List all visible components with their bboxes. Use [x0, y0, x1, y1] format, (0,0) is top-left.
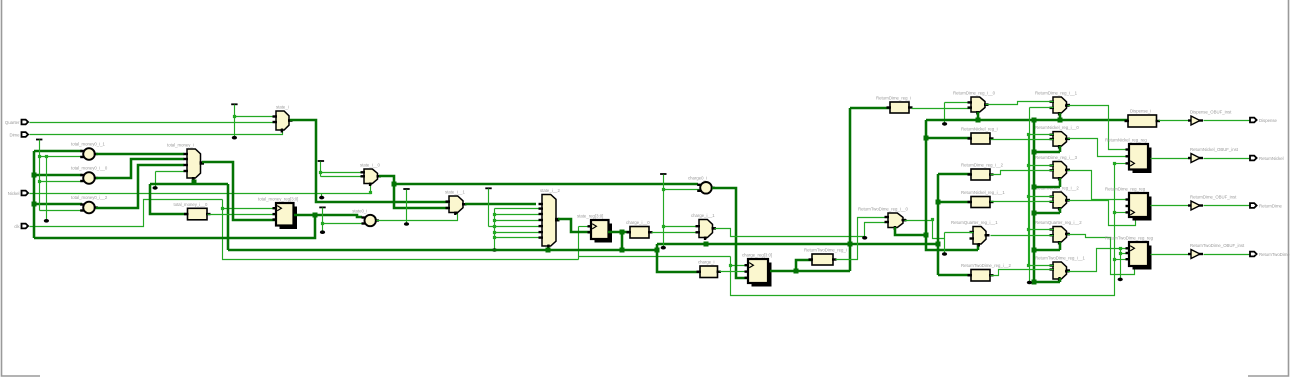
wire select branch — [1034, 212, 1060, 215]
wire mux out — [905, 220, 933, 222]
wire mux2 out to reg — [1068, 139, 1130, 157]
wire branch to mux in1 — [945, 102, 972, 104]
mux state_i — [276, 105, 293, 133]
junction stub tap — [662, 188, 665, 191]
svg-text:state_i__1: state_i__1 — [445, 190, 465, 195]
constant stub x406.5 — [403, 188, 409, 190]
mux ReturnNickel_reg_i__0 — [1035, 125, 1079, 149]
constant stub x663.3 — [660, 173, 666, 175]
wire charge_i out to charge_reg — [720, 271, 749, 273]
wire branch to ReturnDime_reg_i__2 — [938, 173, 971, 176]
LUT charge_i__0 — [626, 220, 653, 238]
junction trunk x1033 — [1032, 118, 1037, 123]
wire Nickel net to state_i__0 select — [30, 184, 371, 194]
wire reg out — [1151, 158, 1192, 160]
LUT state0_i — [352, 208, 379, 226]
svg-text:total_money_i__0: total_money_i__0 — [174, 202, 209, 207]
wire const to state_i__2 in5 — [489, 226, 539, 228]
mux ReturnQuarter_reg_i__2 — [1035, 220, 1082, 245]
wire tap to in4 — [495, 220, 539, 222]
svg-text:charge0_i: charge0_i — [688, 176, 707, 181]
wire total_money0_i__0 out — [96, 159, 184, 178]
LUT Dispense_i — [1125, 109, 1161, 128]
constant stub left — [36, 139, 42, 141]
svg-text:ReturnNickel: ReturnNickel — [1259, 156, 1284, 161]
wire bus to total_money0_i__2 input — [34, 203, 82, 206]
wire bus B y244 — [657, 243, 938, 246]
svg-text:charge_i: charge_i — [698, 260, 715, 265]
svg-text:ReturnNickel_reg_i__0: ReturnNickel_reg_i__0 — [1035, 125, 1079, 130]
svg-text:ReturnDime_reg_reg: ReturnDime_reg_reg — [1105, 187, 1146, 192]
svg-text:ReturnDime_reg_i__0: ReturnDime_reg_i__0 — [953, 91, 996, 96]
wire tap to in2 — [495, 208, 539, 210]
svg-text:ReturnDime_reg_i: ReturnDime_reg_i — [876, 96, 911, 101]
output port ReturnDime — [1250, 203, 1283, 208]
wire total bus vertical x34 — [33, 151, 36, 238]
svg-text:Quarter: Quarter — [5, 120, 20, 125]
wire trunk x926 down — [926, 120, 978, 250]
junction stub tap — [662, 225, 665, 228]
mux ReturnDime_reg_i__3 — [1035, 155, 1078, 181]
wire total_money_reg Q to state0_i — [315, 215, 362, 217]
junction state_reg Q — [620, 230, 625, 235]
junction stub tap — [319, 171, 322, 174]
svg-text:ReturnQuarter_reg_i__1: ReturnQuarter_reg_i__1 — [951, 220, 998, 225]
wire ReturnDime_reg_i__0 out to __1 — [986, 102, 1054, 105]
pins state_i__0 — [361, 171, 366, 173]
wire tap to in6 — [495, 232, 539, 234]
junction start of bus y183.6 — [392, 182, 397, 187]
wire net with end dot — [944, 233, 946, 253]
register ReturnTwoDime_reg_reg — [1105, 236, 1154, 270]
wire state_i__2 out to state_reg D — [558, 219, 591, 232]
input port Dime — [9, 132, 28, 137]
junction clk tap — [221, 207, 224, 210]
wire const stub to state0_i in2 — [323, 223, 362, 225]
LUT charge_i — [697, 260, 722, 278]
wire mux1 select to bus — [1059, 113, 1062, 120]
junction taps — [493, 213, 496, 216]
svg-text:charge_i__0: charge_i__0 — [626, 220, 650, 225]
wire state_i out to state_i__1 — [290, 120, 448, 202]
mux ReturnTwoDime_reg_i__1 — [1035, 256, 1086, 282]
mux state_i__1 — [445, 190, 467, 216]
svg-text:ReturnTwoDime_reg_i__0: ReturnTwoDime_reg_i__0 — [858, 207, 909, 212]
input port Nickel — [8, 191, 28, 196]
wire charge0_i out to charge_reg D — [712, 188, 748, 278]
pins ReturnTwoDime_reg_i__0 — [885, 216, 890, 218]
svg-text:state0_i: state0_i — [352, 208, 367, 213]
svg-text:ReturnNickel_reg_reg: ReturnNickel_reg_reg — [1105, 138, 1147, 143]
LUT total_money0_i__2 — [71, 195, 108, 213]
wire total_money_i__0 out to reg D — [208, 214, 277, 216]
wire ReturnNickel_reg_i__1 out — [991, 201, 1054, 203]
LUT total_money0_i_1 — [71, 142, 106, 160]
wire Dispense_i out — [1159, 120, 1192, 122]
pins total_money_i inputs — [184, 153, 189, 155]
wire clk net from port — [30, 200, 223, 227]
wire into reg3 — [1121, 253, 1130, 255]
svg-text:ReturnDime_OBUF_inst: ReturnDime_OBUF_inst — [1190, 195, 1237, 200]
LUT ReturnDime_reg_i__2 — [961, 163, 1004, 181]
svg-text:state_i__0: state_i__0 — [360, 163, 380, 168]
wire reg out — [1151, 205, 1192, 207]
junction stub tap — [233, 115, 236, 118]
register charge_reg[3:0] — [742, 253, 772, 287]
wire state_reg Q to bus — [621, 232, 624, 250]
wire charge_i__0 out to charge_i__1 — [652, 232, 700, 234]
wire state bus to total_money_i__0 — [150, 184, 188, 214]
wire total bus feedback y237 — [34, 215, 315, 238]
mux state_i__2 — [540, 188, 560, 249]
svg-text:total_money_i: total_money_i — [167, 143, 194, 148]
wire reg out — [1151, 254, 1192, 256]
junction stub tap — [38, 155, 41, 158]
junction bus — [32, 202, 37, 207]
wire const to state_i__0 in2 — [321, 176, 361, 178]
svg-text:state_i: state_i — [276, 105, 289, 110]
svg-text:total_money_reg[3:0]: total_money_reg[3:0] — [258, 197, 298, 202]
pins state_i__2 — [539, 203, 544, 205]
constant stub for state_i — [231, 103, 237, 105]
wire branch to ReturnNickel_reg_i — [926, 137, 971, 140]
wire ReturnDime_reg_i out — [912, 108, 972, 110]
register ReturnDime_reg_reg — [1105, 187, 1152, 221]
mux ReturnQuarter_reg_i__1 — [951, 220, 998, 247]
svg-text:ReturnTwoDime: ReturnTwoDime — [1259, 252, 1290, 257]
svg-text:state_i__2: state_i__2 — [540, 188, 560, 193]
wire to total_money0_i__0 lower input — [40, 181, 83, 183]
wire mux5 out under reg3 — [1068, 235, 1135, 275]
mux charge_i__1 — [691, 213, 716, 240]
junction — [931, 218, 934, 221]
wire const to charge_i__1 in1 — [664, 226, 696, 228]
svg-text:state_reg[3:0]: state_reg[3:0] — [577, 214, 603, 219]
wire ReturnTwoDime_reg_i out to mux in1 — [836, 218, 889, 260]
wire stub down — [155, 172, 157, 187]
junction — [1119, 252, 1122, 255]
LUT charge0_i — [688, 176, 715, 194]
output port ReturnNickel — [1250, 156, 1284, 161]
wire charge_i__1 out to ReturnTwoDime mux — [715, 223, 889, 237]
wire const to charge0_i in2 — [664, 189, 700, 191]
wire to total_money0_i__2 lower input — [40, 210, 83, 212]
wire tap to in3 — [495, 214, 539, 216]
svg-text:Dispense_i: Dispense_i — [1130, 109, 1151, 114]
wire tap to in7 — [495, 237, 539, 239]
svg-text:total_money0_i_1: total_money0_i_1 — [71, 142, 106, 147]
wire clk branch to state_reg — [578, 227, 580, 260]
wire total_money_i out to total_money_reg — [202, 162, 276, 220]
register state_reg[3:0] — [577, 214, 612, 243]
wire dispense bus y120 — [926, 119, 1128, 122]
wire Dime net to state_i select — [30, 131, 283, 135]
wire stub — [944, 103, 946, 123]
wire select branch — [1034, 281, 1060, 284]
svg-text:ReturnNickel_reg_i__1: ReturnNickel_reg_i__1 — [961, 190, 1005, 195]
wire Nickel branch end — [321, 194, 323, 197]
wire clk run middle — [579, 256, 731, 258]
svg-text:total_money0_i__0: total_money0_i__0 — [71, 166, 108, 171]
input port Quarter — [5, 120, 28, 125]
wire clk into state_reg — [579, 226, 592, 228]
junction total_money_i select — [192, 180, 197, 185]
register ReturnNickel_reg_reg — [1105, 138, 1152, 174]
wire bus to total_money0_i__0 input — [34, 174, 82, 177]
wire ReturnTwoDime_reg_i__2 out — [991, 270, 1054, 276]
wire clk into charge_reg — [731, 265, 749, 267]
pins ReturnQuarter_reg_i__1 — [970, 231, 975, 233]
wire up to ReturnQuarter mux select — [977, 244, 980, 250]
junction stub tap — [321, 222, 324, 225]
mux total_money_i — [167, 143, 204, 181]
wire in1 column x1028 — [1028, 135, 1030, 266]
wire select branch — [1034, 151, 1060, 154]
wire total_money0_i__2 out — [96, 165, 184, 208]
wire charge bus to ReturnTwoDime_reg_i — [796, 260, 812, 271]
wire in1 tap — [1029, 265, 1054, 267]
wire state bus taps vertical — [494, 209, 496, 250]
wire clk into total_money_reg — [223, 208, 277, 210]
junction — [924, 233, 929, 238]
wire state bus select line — [150, 183, 228, 186]
wire — [1120, 249, 1122, 279]
svg-text:ReturnNickel_reg_i: ReturnNickel_reg_i — [961, 127, 998, 132]
junction charge_i__1 select — [704, 242, 709, 247]
wire bus to total_money0_i_1 input — [34, 150, 82, 153]
wire down to ReturnQuarter mux — [933, 221, 945, 239]
wire state_i__1 out to state_i__2 — [465, 203, 536, 206]
wire branch to ReturnTwoDime_reg_i__2 — [938, 274, 971, 277]
pins state_i__1 — [446, 200, 451, 202]
wire clk into register — [1115, 259, 1130, 261]
junction bus — [32, 173, 37, 178]
buffer ReturnDime_OBUF_inst — [1188, 195, 1237, 211]
svg-text:ReturnTwoDime_reg_i__2: ReturnTwoDime_reg_i__2 — [961, 263, 1012, 268]
pins ReturnDime_reg_i__0 — [968, 101, 973, 103]
wire to total_money0_i_1 lower input — [40, 156, 83, 158]
svg-text:ReturnTwoDime_reg_i: ReturnTwoDime_reg_i — [804, 248, 847, 253]
junction — [1119, 247, 1122, 250]
mux ReturnDime_reg_i__0 — [953, 91, 996, 115]
junction — [976, 118, 981, 123]
wire total_money_reg Q out — [294, 214, 315, 217]
wire state bus riser to main bus — [227, 184, 230, 250]
wire trunk x937 — [937, 174, 940, 275]
wire to ReturnTwoDime port — [1204, 254, 1251, 256]
junction bus at x657 — [655, 248, 660, 253]
wire select to bus — [977, 112, 980, 120]
wire branch to ReturnNickel_reg_i__1 — [938, 201, 971, 204]
output port ReturnTwoDime — [1250, 252, 1290, 257]
wire branch with end dot — [46, 157, 48, 220]
buffer ReturnNickel_OBUF_inst — [1188, 147, 1239, 163]
buffer Dispense_OBUF_inst — [1188, 110, 1232, 126]
wire charge bus trunk x850 — [849, 108, 852, 271]
svg-text:ReturnNickel_OBUF_inst: ReturnNickel_OBUF_inst — [1190, 147, 1239, 152]
svg-text:charge_i__1: charge_i__1 — [691, 213, 715, 218]
junction total_money_reg Q — [313, 213, 318, 218]
wire in1 tap — [1029, 196, 1054, 198]
wire select branch — [1034, 249, 1060, 252]
wire const to state_i in1 — [235, 116, 277, 118]
wire bus corner to charge_i — [657, 244, 700, 272]
wire mux4 out under reg2 bottom entry — [1068, 201, 1136, 226]
wire mux1 out to reg D — [1068, 106, 1130, 150]
svg-text:clk: clk — [14, 224, 20, 229]
constant stub for state_i__0 — [318, 160, 324, 162]
LUT ReturnNickel_reg_i — [961, 127, 998, 145]
svg-text:ReturnQuarter_reg_i__2: ReturnQuarter_reg_i__2 — [1035, 220, 1082, 225]
svg-text:ReturnTwoDime_OBUF_inst: ReturnTwoDime_OBUF_inst — [1190, 243, 1245, 248]
wire select to trunk — [895, 227, 926, 235]
wire state_reg Q out — [608, 231, 630, 234]
wire to Dispense port — [1204, 120, 1251, 122]
junction — [936, 200, 941, 205]
wire mux6 out to reg3 — [1068, 249, 1130, 272]
junction trunk at bus B — [848, 242, 853, 247]
junction — [924, 136, 929, 141]
wire bus to charge0_i — [394, 183, 698, 186]
wire ReturnDime_reg_i__2 out — [991, 171, 1054, 175]
junction state_i__2 select — [546, 248, 551, 253]
wire mux3 out to reg D — [1068, 171, 1130, 200]
svg-text:Nickel: Nickel — [8, 191, 20, 196]
junction on bus — [620, 248, 625, 253]
svg-text:ReturnTwoDime_reg_reg: ReturnTwoDime_reg_reg — [1105, 236, 1154, 241]
wire clk riser and run — [223, 200, 579, 260]
buffer ReturnTwoDime_OBUF_inst — [1188, 243, 1245, 259]
junction Nickel select — [369, 191, 372, 194]
pins state_i — [273, 115, 278, 117]
wire clk into register — [1115, 163, 1130, 165]
wire in1 tap — [1029, 165, 1054, 167]
svg-text:charge_reg[3:0]: charge_reg[3:0] — [742, 253, 772, 258]
LUT total_money0_i__0 — [71, 166, 108, 184]
wire into total_money_i input 4 — [156, 171, 184, 173]
wire in2 mux1 — [1030, 107, 1054, 109]
mux ReturnDime_reg_i__1 — [1035, 91, 1078, 116]
wire total_money0_i_1 out — [96, 153, 184, 156]
LUT ReturnDime_reg_i — [876, 96, 913, 114]
pins mux column — [1050, 100, 1055, 102]
svg-text:ReturnDime_reg_i__1: ReturnDime_reg_i__1 — [1035, 91, 1078, 96]
svg-text:ReturnTwoDime_reg_i__1: ReturnTwoDime_reg_i__1 — [1035, 256, 1086, 261]
wire to ReturnDime port — [1204, 205, 1251, 207]
svg-text:Dime: Dime — [9, 132, 20, 137]
svg-text:ReturnDime: ReturnDime — [1259, 203, 1283, 208]
input port clk — [14, 224, 28, 229]
mux ReturnTwoDime_reg_i__0 — [858, 207, 909, 231]
output port Dispense — [1250, 118, 1278, 123]
wire ReturnQuarter_reg_i__1 out — [991, 235, 1054, 237]
wire trunk to ReturnDime_reg_i — [850, 107, 890, 110]
wire main state bus y250 — [228, 249, 657, 252]
wire charge_reg Q out — [770, 270, 850, 273]
wire state_i__0 out to state_i__1 in2 — [379, 176, 448, 208]
svg-text:Dispense: Dispense — [1259, 118, 1278, 123]
mux ReturnNickel_reg_i__2 — [1035, 186, 1079, 211]
wire const to state_i__0 in1 — [321, 172, 361, 174]
mux state_i__0 — [360, 163, 381, 187]
constant stub for state_i__2 — [485, 187, 491, 189]
wire in1 tap — [1029, 134, 1054, 136]
LUT total_money_i__0 — [174, 202, 211, 220]
LUT ReturnTwoDime_reg_i — [804, 248, 847, 266]
junction charge bus — [794, 269, 799, 274]
wire clk into register — [1115, 212, 1130, 214]
pin total_money_i select — [192, 177, 194, 180]
register total_money_reg[3:0] — [258, 197, 298, 230]
constant stub x322.5 — [319, 206, 325, 208]
wire ReturnNickel_reg_i out — [991, 139, 1054, 141]
wire to ReturnNickel port — [1204, 158, 1251, 160]
wire in1 tap — [1029, 229, 1054, 231]
LUT ReturnTwoDime_reg_i__2 — [961, 263, 1012, 281]
LUT ReturnNickel_reg_i__1 — [961, 190, 1005, 208]
svg-text:total_money0_i__2: total_money0_i__2 — [71, 195, 108, 200]
wire trunk end dot — [1029, 108, 1031, 282]
junction — [1058, 118, 1063, 123]
pins charge_i__1 — [696, 225, 701, 227]
svg-text:Dispense_OBUF_inst: Dispense_OBUF_inst — [1190, 110, 1232, 115]
junction clk at charge_reg — [729, 264, 732, 267]
wire Quarter net — [30, 122, 277, 124]
wire state0_i out to state_i__1 select — [377, 214, 458, 221]
wire trunk x1033 down — [1033, 120, 1036, 282]
svg-text:ReturnDime_reg_i__3: ReturnDime_reg_i__3 — [1035, 155, 1078, 160]
wire select branch — [1034, 186, 1060, 189]
wire clk long bottom run — [731, 164, 1115, 296]
svg-text:ReturnDime_reg_i__2: ReturnDime_reg_i__2 — [961, 163, 1004, 168]
